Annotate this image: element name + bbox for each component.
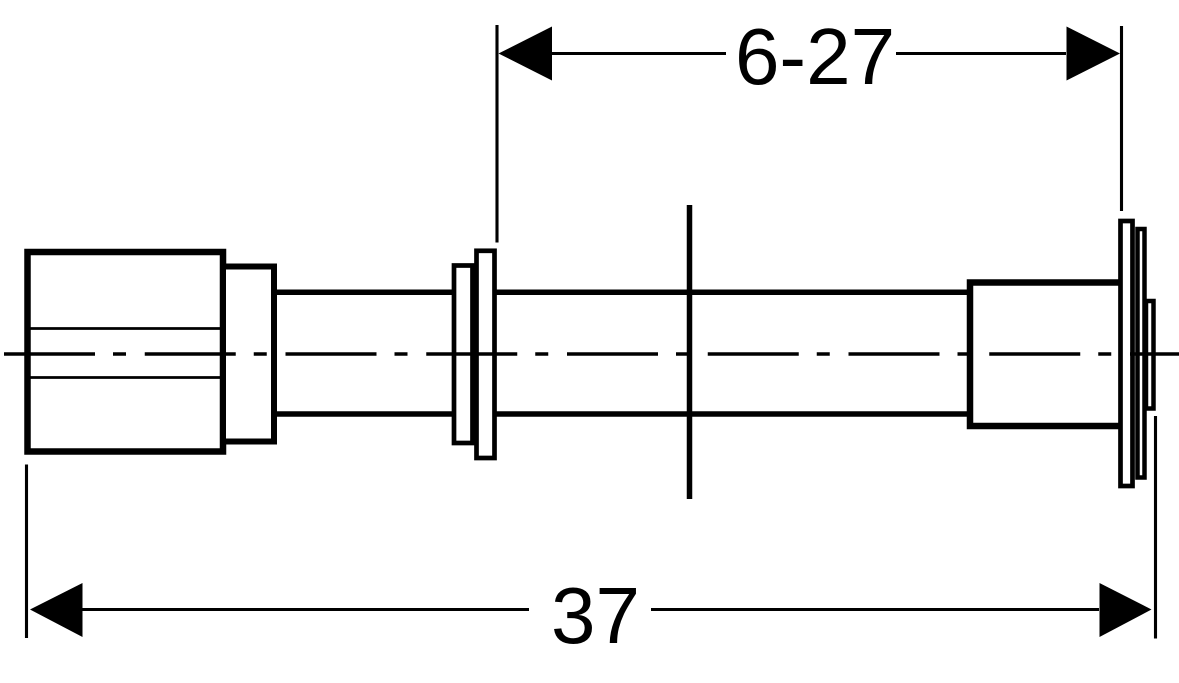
dimension line 6-27 left segment [552,52,726,55]
arrowhead left of dimension 37 [30,583,83,637]
right flange front plate [1121,221,1133,486]
pipe bottom outline [274,411,970,417]
right flange rear plate [1138,229,1145,478]
dimension line 37 left segment [83,608,530,611]
dimension line 6-27 right segment [896,52,1066,55]
arrowhead right of dimension 6-27 [1067,27,1121,81]
right stub [1146,301,1154,409]
extension line right of dimension 6-27 [1120,26,1123,211]
right coupling body [970,283,1123,427]
left sleeve inner line lower [27,376,223,379]
pipe top outline [274,290,970,296]
centerline [4,352,1179,356]
mid wall section line [687,205,693,499]
extension line left of dimension 6-27 [495,25,498,243]
arrowhead left of dimension 6-27 [499,27,553,81]
left sleeve body [28,252,224,452]
arrowhead right of dimension 37 [1100,583,1152,637]
extension line right of dimension 37 [1154,416,1157,639]
left sleeve collar [223,267,274,442]
dimension line 37 right segment [651,608,1099,611]
extension line left of dimension 37 [25,465,28,639]
svg-text:37: 37 [551,571,640,660]
svg-text:6-27: 6-27 [735,12,895,101]
left sleeve inner line upper [27,327,223,330]
wall flange front plate [477,251,495,458]
wall flange back plate [454,266,473,444]
